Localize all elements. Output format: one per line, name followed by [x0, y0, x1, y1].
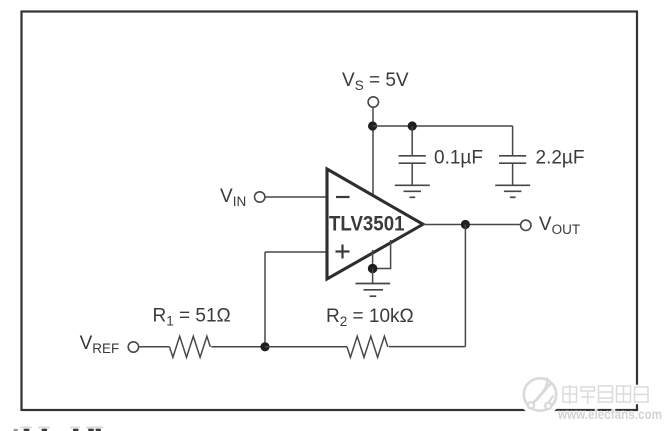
cropped caption text at bottom edge: [14, 427, 104, 431]
wire to ground symbol: [372, 269, 374, 284]
svg-text:VS = 5V: VS = 5V: [342, 70, 409, 93]
wire C2 bottom lead: [512, 163, 514, 185]
wire feedback vertical: [464, 225, 466, 347]
svg-text:www.elecfans.com: www.elecfans.com: [557, 406, 662, 422]
svg-text:R1 = 51Ω: R1 = 51Ω: [153, 306, 231, 329]
node VS junction: [368, 121, 377, 130]
wire C1 top lead: [411, 126, 413, 155]
capacitor C2 2.2uF: [499, 156, 526, 163]
node R1 R2 junction: [260, 342, 269, 351]
wire noninverting input horizontal: [265, 251, 328, 253]
op-amp pin SDN to ground: [374, 240, 391, 269]
op-amp minus sign: [336, 196, 350, 198]
svg-text:TLV3501: TLV3501: [329, 213, 405, 236]
wire C2 top lead: [512, 126, 514, 155]
wire noninverting input vertical: [264, 252, 266, 347]
resistor R1: [170, 336, 211, 357]
svg-text:0.1µF: 0.1µF: [434, 148, 483, 169]
ground under C1: [395, 185, 430, 197]
watermark chinese text: [563, 386, 648, 404]
wire feedback horizontal to R2: [389, 346, 466, 348]
svg-text:2.2µF: 2.2µF: [536, 148, 585, 169]
op-amp plus sign: [336, 245, 350, 259]
wire top supply rail: [373, 125, 513, 127]
wire VIN to inverting input: [265, 196, 328, 198]
resistor R2: [347, 336, 388, 357]
svg-text:R2 = 10kΩ: R2 = 10kΩ: [326, 306, 414, 329]
ground under op-amp: [356, 284, 391, 297]
node op-amp ground junction: [368, 264, 378, 274]
terminal VOUT: [521, 220, 531, 230]
node C1 junction: [408, 121, 417, 130]
wire op-amp output: [423, 224, 520, 226]
wire R1 to node: [211, 346, 265, 348]
wire VREF to R1: [139, 346, 169, 348]
terminal VREF: [128, 342, 138, 352]
terminal VIN: [255, 192, 265, 202]
op-amp pin V- to ground: [372, 250, 374, 269]
wire VS vertical to op-amp top edge: [372, 107, 374, 200]
wire node to R2: [265, 346, 347, 348]
wire C1 bottom lead: [411, 163, 413, 185]
ground under C2: [495, 185, 530, 197]
op-amp U1 TLV3501 triangle: [327, 169, 423, 279]
capacitor C1 0.1uF: [399, 156, 426, 163]
terminal VS: [368, 97, 378, 107]
watermark logo circle: [519, 374, 561, 416]
node output junction: [461, 220, 470, 229]
